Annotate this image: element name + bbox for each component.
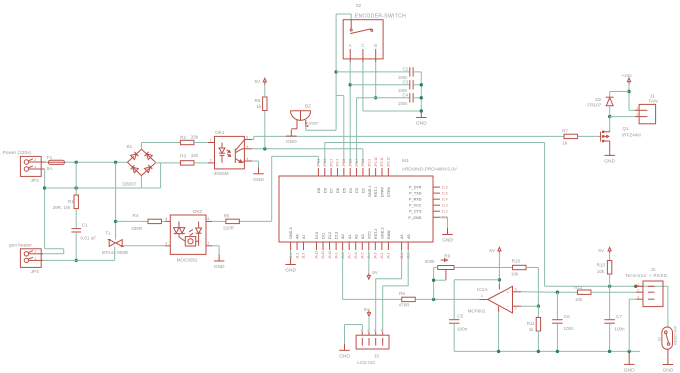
- svg-text:100n: 100n: [614, 327, 625, 332]
- svg-text:JP2.11: JP2.11: [380, 157, 384, 167]
- svg-text:470R: 470R: [399, 302, 411, 307]
- junction C4 right: [414, 97, 421, 99]
- svg-text:DB207: DB207: [123, 182, 137, 187]
- wire R5 line from OK2 pin6: [212, 220, 225, 222]
- svg-text:100n: 100n: [398, 101, 408, 106]
- svg-text:JP2.10: JP2.10: [374, 157, 378, 167]
- wire pot left terminal down: [434, 267, 438, 269]
- wire buzzer to encoder net: [305, 127, 307, 131]
- wire C6 down: [556, 292, 558, 319]
- svg-text:A4: A4: [400, 234, 404, 239]
- svg-text:P_TXD: P_TXD: [409, 192, 421, 196]
- svg-text:R1: R1: [68, 199, 74, 204]
- svg-text:D7: D7: [330, 188, 334, 193]
- svg-text:8: 8: [165, 217, 167, 221]
- svg-text:J2: J2: [651, 267, 656, 272]
- svg-text:ENCODER-SWITCH: ENCODER-SWITCH: [355, 13, 406, 19]
- svg-text:JA.10: JA.10: [328, 251, 332, 259]
- svg-text:+: +: [507, 291, 510, 295]
- svg-text:JA.1: JA.1: [387, 252, 391, 259]
- wire collector line down to Arduino pin: [362, 149, 364, 164]
- svg-text:R6: R6: [255, 98, 261, 103]
- wire encoder top pin: [336, 13, 351, 15]
- svg-text:A0: A0: [341, 234, 345, 239]
- svg-text:330R: 330R: [131, 226, 143, 231]
- svg-text:4: 4: [165, 242, 167, 246]
- svg-text:5V: 5V: [489, 248, 496, 253]
- wire bridge bottom corner drop: [140, 176, 142, 189]
- wire JP4 pin1 to T1 MT1: [43, 259, 115, 261]
- connector JP4 gun heater: [20, 249, 41, 268]
- svg-text:T1: T1: [105, 231, 111, 236]
- svg-text:1k: 1k: [257, 104, 263, 109]
- svg-text:OK1: OK1: [215, 130, 225, 136]
- wire OK1 pin5 collector line: [252, 148, 363, 150]
- wire R4 to OK2 pin anode: [162, 220, 165, 222]
- svg-text:JA.2: JA.2: [380, 252, 384, 259]
- ground for LCD pin1: [361, 325, 363, 333]
- svg-text:VCC: VCC: [367, 231, 371, 239]
- junction reed branch: [634, 285, 637, 288]
- svg-text:5V: 5V: [255, 79, 262, 84]
- junction live/T1: [114, 161, 117, 164]
- svg-text:500k: 500k: [425, 259, 436, 264]
- wire A4 to LCD SDA: [401, 250, 403, 279]
- svg-text:+24v: +24v: [622, 73, 633, 78]
- svg-text:GND.2: GND.2: [380, 227, 384, 239]
- svg-text:A5: A5: [407, 234, 411, 239]
- supply 5V above R6: [264, 84, 266, 97]
- capacitor C5 100n: [449, 319, 459, 321]
- svg-text:C7: C7: [616, 314, 622, 319]
- svg-text:J1.3: J1.3: [442, 204, 448, 208]
- svg-text:1: 1: [34, 165, 36, 169]
- wire C4 line corner to Arduino GND.1: [357, 97, 410, 99]
- svg-text:M1: M1: [402, 158, 409, 164]
- svg-text:ARDUINO-PRO-MINI-5.0V: ARDUINO-PRO-MINI-5.0V: [402, 166, 458, 171]
- junction C3 right: [414, 84, 421, 86]
- svg-text:JP2.7: JP2.7: [355, 159, 359, 167]
- wire fan J1 pin2: [610, 116, 635, 118]
- capacitor C1 0.01uF: [71, 228, 81, 230]
- Arduino right pins: [433, 186, 440, 188]
- wire R10 right down to op-amp pin2: [526, 267, 539, 269]
- wire bridge right corner to R3: [156, 162, 181, 164]
- svg-text:J1.5: J1.5: [442, 192, 448, 196]
- fuse F1: [48, 160, 64, 164]
- svg-text:6: 6: [207, 217, 209, 221]
- svg-text:RST.2: RST.2: [374, 229, 378, 239]
- svg-text:33k: 33k: [191, 153, 199, 158]
- svg-text:33k: 33k: [191, 134, 199, 139]
- wire T1 gate from OK2: [123, 245, 165, 247]
- wire neutral to bridge bottom corner: [45, 187, 161, 189]
- svg-text:GND: GND: [214, 264, 225, 270]
- svg-text:J1.2: J1.2: [295, 253, 299, 259]
- buzzer BZ: [291, 110, 311, 112]
- svg-text:1: 1: [34, 257, 36, 261]
- svg-text:RST.1: RST.1: [374, 187, 378, 197]
- junction D2 / Q1 drain / fan: [608, 115, 611, 118]
- ground below S1: [667, 352, 669, 365]
- svg-text:D3: D3: [355, 188, 359, 193]
- svg-text:2: 2: [515, 307, 517, 311]
- wire C2 right to vertical: [414, 71, 421, 73]
- svg-text:Power (220v): Power (220v): [3, 150, 32, 156]
- svg-text:JA.9: JA.9: [334, 252, 338, 259]
- svg-text:JP2.1: JP2.1: [317, 159, 321, 167]
- svg-text:JA.3: JA.3: [374, 252, 378, 259]
- svg-text:R9: R9: [444, 253, 450, 258]
- svg-text:2: 2: [207, 242, 209, 246]
- svg-text:1: 1: [637, 282, 639, 286]
- svg-text:3: 3: [515, 288, 517, 292]
- svg-text:A6: A6: [296, 234, 300, 239]
- ground below Q1 source: [609, 149, 611, 156]
- capacitor C3 100n: [409, 80, 411, 89]
- encoder switch S2: [343, 20, 383, 59]
- svg-text:R11: R11: [527, 321, 536, 326]
- junction pin A / C3 line: [349, 83, 352, 86]
- svg-text:P_CTS: P_CTS: [409, 210, 422, 214]
- svg-text:JP2.2: JP2.2: [323, 159, 327, 167]
- connector J3 LCD I2C: [356, 335, 389, 349]
- reed switch S1 REED-SW: [662, 327, 673, 349]
- wire encoder pin B down: [375, 62, 377, 98]
- svg-text:B1: B1: [127, 144, 133, 149]
- diode D2 FR107 flyback: [606, 96, 614, 98]
- svg-text:P_GND: P_GND: [408, 216, 421, 220]
- supply +24v: [627, 78, 630, 82]
- wire fan J1 pin1 from +24v: [629, 109, 635, 111]
- svg-text:JP2.9: JP2.9: [367, 159, 371, 167]
- wire R3 to OK1 pin2: [194, 162, 208, 164]
- svg-text:39R, 1W: 39R, 1W: [53, 205, 72, 210]
- Arduino top pins: [317, 168, 319, 176]
- svg-text:D6: D6: [336, 188, 340, 193]
- svg-text:JP2.8: JP2.8: [361, 159, 365, 167]
- connector JP3 Power 220v: [20, 156, 41, 176]
- svg-text:MCP602: MCP602: [468, 309, 486, 314]
- junction R6/OK1 line: [263, 147, 266, 150]
- svg-text:R13: R13: [597, 262, 606, 267]
- svg-text:GND: GND: [604, 158, 615, 164]
- svg-text:10k: 10k: [597, 269, 605, 274]
- resistor R10 10k: [513, 265, 527, 269]
- svg-text:DTR#: DTR#: [387, 186, 391, 197]
- svg-text:MOC3052: MOC3052: [177, 257, 198, 262]
- transistor Q1 IRFZ44N: [600, 132, 602, 142]
- svg-text:4: 4: [246, 157, 248, 161]
- wire bridge top corner to R2: [141, 143, 143, 150]
- svg-text:JA.12: JA.12: [315, 251, 319, 259]
- wire encoder net jog to Arduino D3: [336, 94, 344, 96]
- optocoupler OK2 MOC3052: [170, 215, 206, 254]
- svg-text:JP2.4: JP2.4: [336, 159, 340, 167]
- capacitor C7 100n: [604, 319, 615, 321]
- svg-text:2: 2: [34, 158, 36, 162]
- svg-text:C3: C3: [403, 79, 409, 84]
- svg-text:R10: R10: [512, 259, 521, 264]
- svg-text:R2: R2: [180, 135, 186, 140]
- svg-text:BZ: BZ: [305, 104, 311, 109]
- svg-text:2: 2: [637, 288, 639, 292]
- svg-text:4N25M: 4N25M: [214, 171, 229, 176]
- op-amp power pins: [498, 284, 500, 290]
- svg-text:DTR#: DTR#: [381, 186, 385, 197]
- ground below OK1 pin4: [252, 160, 258, 162]
- junction live/R1 top: [75, 186, 78, 189]
- svg-text:GND: GND: [253, 177, 264, 183]
- svg-text:JA.7: JA.7: [347, 252, 351, 259]
- svg-text:1: 1: [636, 106, 638, 110]
- svg-text:LCD I2C: LCD I2C: [357, 360, 376, 366]
- svg-text:2: 2: [34, 250, 36, 254]
- wire R1 top: [75, 162, 77, 194]
- svg-text:GND: GND: [416, 121, 427, 127]
- svg-text:BTA41-600B: BTA41-600B: [102, 250, 128, 255]
- svg-text:FAN: FAN: [649, 98, 658, 103]
- svg-text:6: 6: [246, 136, 248, 140]
- svg-text:5V: 5V: [598, 248, 605, 253]
- svg-text:JP2.3: JP2.3: [329, 159, 333, 167]
- svg-text:2: 2: [210, 159, 212, 163]
- svg-text:5V: 5V: [364, 307, 371, 312]
- svg-text:A1: A1: [348, 234, 352, 239]
- svg-text:buzzer: buzzer: [305, 120, 319, 125]
- wire A5 to LCD SCL: [407, 250, 409, 286]
- svg-text:JP2.5: JP2.5: [342, 159, 346, 167]
- wire C3 line: [350, 84, 409, 86]
- supply 5V above R13: [608, 247, 611, 251]
- wire R12 to J2 pin2: [591, 291, 636, 293]
- wire D7 net to thermistor header: [324, 143, 326, 164]
- wire op-amp pin3 line: [521, 291, 557, 293]
- svg-text:100n: 100n: [563, 326, 574, 331]
- wire op-amp pin2 line: [521, 305, 538, 307]
- svg-text:R5: R5: [224, 214, 230, 219]
- wire 5V rail to C5: [454, 279, 499, 281]
- svg-text:C2: C2: [403, 66, 409, 71]
- capacitor C6 100n: [552, 319, 563, 321]
- svg-text:OK2: OK2: [193, 209, 203, 215]
- svg-text:5V: 5V: [372, 270, 379, 275]
- svg-text:D8: D8: [317, 188, 321, 193]
- OK2 interior LED: [198, 221, 200, 227]
- svg-text:220R: 220R: [223, 226, 235, 231]
- junction pot wiper: [432, 279, 435, 282]
- capacitor C4 100n: [409, 93, 411, 102]
- svg-text:D4: D4: [349, 188, 353, 193]
- svg-text:R8: R8: [399, 291, 405, 296]
- svg-text:IC1A: IC1A: [477, 287, 488, 293]
- capacitor C2 100n: [409, 67, 411, 76]
- svg-text:−: −: [507, 305, 510, 309]
- svg-text:GND: GND: [339, 353, 350, 359]
- svg-text:D9: D9: [323, 188, 327, 193]
- junction pin B / C4 line: [374, 96, 377, 99]
- svg-text:J1.2: J1.2: [442, 210, 448, 214]
- svg-text:D11: D11: [322, 232, 326, 239]
- svg-text:C4: C4: [403, 92, 409, 97]
- resistor R2 33k: [180, 140, 194, 144]
- wire R5 right continues to node above: [239, 220, 241, 222]
- svg-text:REED-SW: REED-SW: [672, 326, 677, 345]
- wire encoder pin C down: [362, 62, 364, 111]
- svg-text:D10: D10: [315, 232, 319, 239]
- ground below cap bus: [420, 111, 422, 118]
- svg-text:FR107: FR107: [587, 103, 601, 108]
- junction R8/pot node: [432, 298, 435, 301]
- junction encoder net / C2 line: [334, 70, 337, 73]
- potentiometer R9 500k: [438, 266, 454, 270]
- wire R7 to Q1 gate: [578, 135, 600, 137]
- bridge rectifier B1 DB207: [127, 156, 134, 162]
- svg-text:A7: A7: [302, 234, 306, 239]
- svg-text:A2: A2: [354, 234, 358, 239]
- junction T1/R4: [114, 220, 117, 223]
- svg-text:A: A: [349, 43, 352, 48]
- resistor R13 10k: [607, 261, 611, 275]
- junction live/R1: [75, 161, 78, 164]
- svg-text:P_DTR: P_DTR: [409, 186, 422, 190]
- svg-text:J1.6: J1.6: [442, 186, 448, 190]
- svg-text:JP2.6: JP2.6: [348, 159, 352, 167]
- wire reed branch down: [667, 286, 669, 327]
- wire J2 pin3 to ground rail: [628, 299, 630, 351]
- svg-text:1: 1: [481, 294, 483, 298]
- resistor R5 220R: [226, 219, 240, 223]
- svg-text:1: 1: [210, 138, 212, 142]
- wire pot wiper down: [445, 270, 447, 281]
- svg-text:C5: C5: [457, 314, 463, 319]
- svg-text:1k: 1k: [529, 327, 535, 332]
- Arduino bottom pins group4 A4 A5: [401, 242, 403, 250]
- svg-text:3: 3: [637, 295, 639, 299]
- svg-text:P_VCC: P_VCC: [409, 204, 422, 208]
- svg-text:1k: 1k: [562, 141, 568, 146]
- svg-text:GND: GND: [442, 238, 453, 244]
- svg-text:F1: F1: [47, 155, 53, 160]
- triac T1 BTA41-600B: [109, 240, 115, 247]
- svg-text:D12: D12: [328, 232, 332, 239]
- supply 5V for op-amp: [498, 247, 501, 251]
- Arduino bottom pins group2: [316, 242, 318, 250]
- wire neutral: JP3 pin1 down and over to JP4 pin2: [44, 169, 46, 249]
- junction R13 on thermistor net: [608, 285, 611, 288]
- svg-text:JA.5: JA.5: [360, 252, 364, 259]
- svg-text:10k: 10k: [575, 297, 583, 302]
- svg-text:C1: C1: [82, 222, 88, 227]
- wire live to T1 MT2: [115, 162, 117, 239]
- resistor R4 330R: [148, 219, 162, 223]
- ground below Arduino P_GND: [440, 216, 448, 218]
- wire A3 to R8: [342, 250, 344, 299]
- wire C2 line: [336, 71, 409, 73]
- svg-text:Q1: Q1: [622, 126, 629, 131]
- svg-text:JP4: JP4: [31, 269, 40, 275]
- svg-text:C: C: [361, 43, 364, 48]
- svg-text:D2: D2: [595, 97, 601, 102]
- supply 5V above LCD pin2: [367, 313, 370, 317]
- svg-text:D5: D5: [342, 188, 346, 193]
- wire R2 to OK1 pin1: [194, 142, 208, 144]
- wire +24v node: [628, 84, 630, 110]
- svg-text:5: 5: [246, 145, 248, 149]
- svg-text:2: 2: [636, 113, 638, 117]
- svg-text:GND.3: GND.3: [289, 227, 293, 239]
- wire R1 to C1: [75, 209, 77, 228]
- resistor R8 470R: [402, 297, 416, 301]
- resistor R1 39R 1W: [74, 195, 78, 209]
- resistor R3 33k: [180, 161, 194, 165]
- svg-text:R12: R12: [574, 285, 583, 290]
- junction neutral/bridge return: [43, 186, 46, 189]
- wire bottom cap bus: [363, 110, 421, 112]
- wire live net from F1 to bridge B1 left corner: [65, 161, 128, 163]
- svg-text:D2: D2: [362, 188, 366, 193]
- resistor R6 1k: [264, 111, 266, 149]
- ground below Arduino GND.3: [290, 250, 292, 258]
- resistor R11 1k: [537, 306, 539, 318]
- svg-text:J1.3: J1.3: [302, 253, 306, 259]
- svg-text:D13: D13: [335, 232, 339, 239]
- wire pot right to R10: [454, 267, 513, 269]
- wire bridge right corner drop: [160, 163, 162, 188]
- wire encoder pin A down to Arduino D2: [349, 62, 351, 164]
- ground below OK2 pin2: [212, 245, 219, 247]
- junction C6 branch: [556, 291, 559, 294]
- svg-text:Termistor + REED: Termistor + REED: [625, 273, 668, 278]
- ground rail bottom right: [454, 350, 640, 352]
- svg-text:R4: R4: [133, 213, 139, 218]
- svg-text:R7: R7: [562, 129, 568, 134]
- svg-text:GND: GND: [285, 268, 296, 274]
- svg-text:RAW: RAW: [387, 230, 391, 239]
- svg-text:J3: J3: [374, 353, 379, 358]
- wire Q1 drain: [609, 117, 611, 131]
- wire C1 to load net: [75, 233, 77, 261]
- connector J2 Termistor + REED: [643, 281, 663, 307]
- svg-text:GND: GND: [662, 368, 673, 373]
- wire power live: JP3 pin2 to fuse F1: [46, 161, 48, 163]
- junction 5V rail: [498, 278, 501, 281]
- svg-text:JA.11: JA.11: [321, 251, 325, 259]
- resistor R7 1k: [564, 134, 578, 138]
- svg-text:JP3: JP3: [31, 178, 40, 184]
- junction C1/JP4 pin1 net: [75, 259, 78, 262]
- svg-text:JA.6: JA.6: [354, 252, 358, 259]
- svg-text:IRFZ44N: IRFZ44N: [622, 132, 641, 137]
- svg-text:P_RXD: P_RXD: [409, 198, 422, 202]
- op-amp IC1A MCP602: [488, 286, 513, 313]
- svg-text:S2: S2: [356, 3, 362, 8]
- ground below buzzer: [290, 130, 292, 137]
- connector J1 FAN: [639, 104, 656, 123]
- wire OK1 pin6 line to R7: [252, 139, 254, 141]
- svg-text:JP2.12: JP2.12: [387, 157, 391, 167]
- svg-text:10k: 10k: [511, 272, 519, 277]
- svg-text:GND: GND: [624, 367, 635, 373]
- svg-text:5A: 5A: [47, 166, 54, 171]
- svg-text:J1.4: J1.4: [442, 198, 448, 202]
- optocoupler OK1 4N25M: [215, 136, 245, 169]
- svg-text:C6: C6: [564, 314, 570, 319]
- Arduino M1 box: [279, 176, 433, 242]
- supply 5V below Arduino VCC: [368, 250, 370, 273]
- wire OK2 output up to Arduino D8: [240, 220, 272, 222]
- svg-text:A3: A3: [361, 234, 365, 239]
